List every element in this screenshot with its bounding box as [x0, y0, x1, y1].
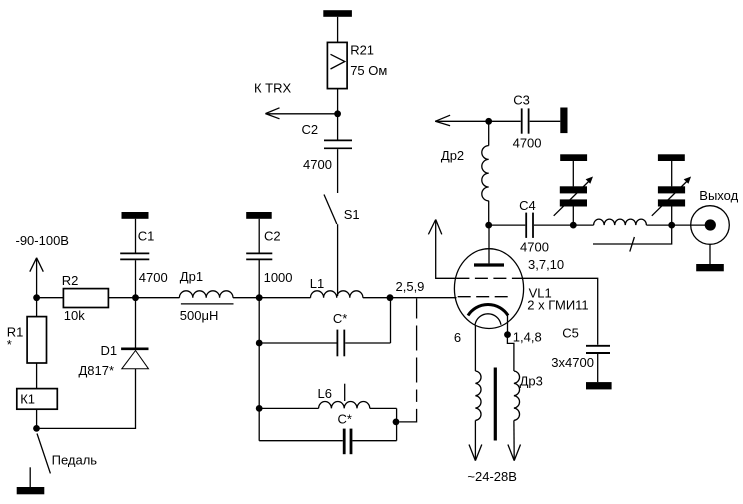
- node (tune cap / coil): [570, 222, 577, 229]
- svg-text:C*: C*: [338, 411, 352, 426]
- node (rail / bus): [256, 294, 263, 301]
- svg-text:4700: 4700: [139, 270, 168, 285]
- wire: [572, 161, 574, 186]
- capacitor C* (upper tank): [259, 298, 390, 357]
- anode plate of VL1: [474, 225, 504, 265]
- wire to TRX with arrow: [265, 108, 337, 119]
- svg-text:500μН: 500μН: [180, 308, 219, 323]
- wire: [109, 297, 136, 299]
- arrow (grid drive): [428, 220, 441, 235]
- ground (top of C1): [122, 212, 149, 219]
- node (Др2 / C3): [485, 118, 492, 125]
- svg-text:C2: C2: [264, 229, 281, 244]
- inductor L6: [259, 384, 396, 441]
- wire: [37, 369, 136, 428]
- zener diode D1 Д817*: [121, 298, 148, 369]
- svg-text:L1: L1: [310, 276, 324, 291]
- arrow (heater supply right): [508, 445, 521, 461]
- wire: [337, 149, 339, 193]
- variable capacitor (tune): [554, 177, 593, 226]
- supply arrow -90-100В: [30, 258, 44, 298]
- filament choke winding Др3 (right): [514, 371, 520, 461]
- wire: [597, 354, 599, 382]
- svg-text:C1: C1: [138, 229, 155, 244]
- svg-text:2,5,9: 2,5,9: [396, 279, 425, 294]
- adjustable core of tank coil: [593, 225, 672, 252]
- svg-text:R2: R2: [62, 273, 79, 288]
- node 1,4,8: [504, 331, 511, 338]
- capacitor C2 4700: [324, 114, 352, 149]
- wire (grid1 right to C5): [522, 278, 597, 345]
- resistor R1: [27, 317, 46, 363]
- node 2,5,9: [387, 294, 394, 301]
- arrow (heater supply left): [469, 445, 482, 461]
- svg-text:C2: C2: [302, 122, 319, 137]
- tank coil (output): [573, 219, 671, 225]
- cathode of VL1: [468, 305, 508, 316]
- svg-text:Педаль: Педаль: [52, 453, 98, 468]
- choke Др2: [482, 121, 489, 225]
- wire: [135, 219, 137, 253]
- ground (top of C2 1000): [246, 212, 272, 219]
- ground (load cap): [658, 154, 685, 161]
- capacitor C3 4700: [489, 108, 561, 133]
- svg-text:4700: 4700: [520, 240, 549, 255]
- svg-text:L6: L6: [318, 386, 332, 401]
- grid 3,7,10 (dashed): [456, 277, 522, 279]
- grid 2,5,9 (dashed): [458, 296, 509, 298]
- wire: [337, 17, 339, 43]
- svg-text:1000: 1000: [264, 270, 293, 285]
- wire: [337, 89, 339, 114]
- capacitor C4 4700: [489, 213, 574, 238]
- arrow (anode feed, to TRX): [435, 115, 489, 126]
- svg-text:4700: 4700: [513, 136, 542, 151]
- ground (top of R21): [323, 10, 352, 17]
- svg-text:S1: S1: [344, 207, 360, 222]
- heater lead pin 6: [474, 325, 476, 371]
- svg-text:Др2: Др2: [441, 148, 464, 163]
- wire: [135, 260, 137, 298]
- node (rail / L6): [256, 405, 263, 412]
- switch S1: [324, 195, 337, 225]
- heater lead pins 1,4,8: [507, 335, 514, 371]
- wire: [258, 219, 260, 253]
- node (rail / C*): [256, 340, 263, 347]
- node (K1 / D1 / pedal): [33, 425, 40, 432]
- wire (S1 to L1 tap): [337, 224, 339, 296]
- wire: [37, 297, 64, 299]
- resistor R2 10k: [63, 289, 108, 308]
- output connector: [691, 206, 730, 264]
- wire: [672, 224, 710, 226]
- wire (cathode to node 1,4,8): [507, 316, 509, 335]
- node (supply / R2 / R1): [33, 294, 40, 301]
- capacitor C2 1000: [246, 253, 272, 259]
- inductor L1: [259, 291, 390, 298]
- svg-text:3,7,10: 3,7,10: [528, 257, 564, 272]
- relay coil K1: [17, 389, 58, 410]
- dashed link (S1 band switch): [399, 299, 416, 422]
- svg-text:~24-28В: ~24-28В: [467, 469, 517, 484]
- wire (grid1 left): [436, 220, 457, 279]
- wire: [36, 409, 38, 428]
- svg-text:C4: C4: [519, 198, 536, 213]
- svg-text:К1: К1: [20, 392, 35, 407]
- choke core Др3: [494, 368, 497, 441]
- svg-text:Др1: Др1: [180, 269, 203, 284]
- svg-text:R21: R21: [350, 43, 374, 58]
- svg-text:6: 6: [454, 330, 461, 345]
- svg-text:3х4700: 3х4700: [551, 355, 594, 370]
- svg-text:75 Ом: 75 Ом: [350, 63, 387, 78]
- node (anode / Др2 / C4): [485, 222, 492, 229]
- wire (bus to tube grid): [390, 297, 457, 299]
- capacitor C1 4700: [120, 253, 149, 259]
- node (load cap / output): [668, 222, 675, 229]
- wire: [36, 363, 38, 389]
- svg-text:C*: C*: [333, 311, 347, 326]
- wire: [36, 298, 38, 317]
- filament choke winding (left): [475, 371, 481, 461]
- svg-text:C3: C3: [513, 92, 530, 107]
- svg-text:D1: D1: [101, 343, 118, 358]
- pedal switch: [37, 434, 50, 474]
- node (C1 / R2 / Др1 / D1): [132, 294, 139, 301]
- ground (C3, side bar): [560, 108, 567, 134]
- heater of VL1: [475, 314, 501, 325]
- svg-text:Д817*: Д817*: [79, 363, 115, 378]
- ground (tune cap): [560, 154, 587, 161]
- ground (output connector): [696, 264, 724, 271]
- svg-text:Др3: Др3: [520, 374, 543, 389]
- node (R21 / C2 / TRX): [334, 110, 341, 117]
- wire (left tank rail): [258, 259, 260, 440]
- capacitor C* (lower tank): [259, 429, 396, 455]
- resistor R21 75 Ом: [327, 42, 347, 88]
- tube VL1 envelope: [454, 249, 523, 329]
- variable capacitor (load): [652, 177, 691, 226]
- ground (C5): [586, 382, 612, 389]
- svg-text:Выход: Выход: [699, 188, 738, 203]
- svg-text:1,4,8: 1,4,8: [513, 329, 542, 344]
- svg-text:4700: 4700: [303, 157, 332, 172]
- svg-text:*: *: [7, 337, 12, 352]
- svg-text:2 х ГМИ11: 2 х ГМИ11: [527, 298, 588, 313]
- svg-text:C5: C5: [562, 326, 579, 341]
- ground (pedal): [17, 467, 45, 494]
- svg-text:К TRX: К TRX: [254, 81, 292, 96]
- svg-text:-90-100В: -90-100В: [16, 233, 69, 248]
- svg-text:10k: 10k: [64, 308, 85, 323]
- inductor Др1 500мкГн: [136, 291, 260, 304]
- node (L6 / dashed link): [393, 419, 400, 426]
- capacitor C5 3x4700: [586, 346, 610, 353]
- wire: [671, 161, 673, 186]
